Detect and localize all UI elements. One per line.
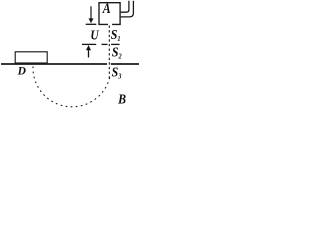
svg-text:S3: S3 xyxy=(112,64,122,81)
svg-text:D: D xyxy=(17,66,27,78)
dashed semicircular track B xyxy=(33,67,110,107)
S2 level line segment a xyxy=(82,43,96,45)
down arrow (upper dimension arrow) xyxy=(90,6,92,19)
S1 level line (left of box) xyxy=(86,23,97,25)
table line left segment xyxy=(1,63,107,65)
vertical dashed fall line xyxy=(108,26,110,80)
svg-text:A: A xyxy=(102,0,111,16)
up arrow (lower dimension arrow) xyxy=(86,45,91,50)
block on table xyxy=(15,52,47,63)
pipe inner wall xyxy=(121,1,129,12)
S2 level line segment c (right of fall line) xyxy=(111,43,120,45)
container A (box, open hole in bottom) xyxy=(99,3,120,25)
svg-text:U: U xyxy=(90,28,99,43)
svg-text:B: B xyxy=(117,92,126,107)
svg-text:S2: S2 xyxy=(112,44,122,61)
pipe outer wall xyxy=(121,1,134,17)
svg-text:S1: S1 xyxy=(111,26,121,43)
S2 level line segment b xyxy=(102,43,108,45)
table line right segment (S3 level) xyxy=(111,63,139,65)
